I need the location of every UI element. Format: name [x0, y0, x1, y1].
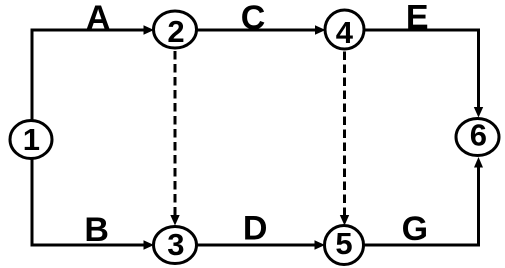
svg-text:2: 2 [167, 14, 184, 49]
arrowhead into node 5 [315, 240, 326, 249]
wire 1 to bottom-left corner then right toward node 3 (activity B) [32, 158, 145, 245]
arrowhead into node 6 bottom [474, 157, 483, 168]
svg-text:6: 6 [470, 118, 487, 153]
svg-text:4: 4 [336, 15, 354, 50]
svg-text:B: B [84, 211, 109, 249]
arrowhead into node 5 top (dashed dummy) [340, 215, 349, 226]
dashed dummy wire node 2 to node 3 [174, 51, 177, 217]
arrowhead into node 2 [144, 25, 155, 34]
wire node 3 to node 5 (activity D) [197, 244, 317, 247]
node 6 [456, 119, 499, 156]
node 2 [154, 11, 197, 48]
wire 1 to top-left corner then right toward node 2 (activity A) [32, 30, 145, 120]
svg-text:3: 3 [167, 227, 184, 262]
dashed dummy wire node 4 to node 5 [343, 52, 346, 217]
wire node 4 to top-right corner then down toward node 6 (activity E) [364, 30, 479, 109]
svg-text:G: G [402, 210, 428, 248]
svg-text:5: 5 [335, 226, 352, 261]
wire node 2 to node 4 (activity C) [197, 29, 317, 32]
arrowhead into node 4 [315, 25, 326, 34]
wire node 5 to bottom-right corner then up toward node 6 (activity G) [364, 166, 479, 245]
arrowhead into node 6 top [474, 107, 483, 118]
svg-text:1: 1 [23, 122, 40, 157]
svg-text:A: A [86, 0, 111, 37]
node 5 [325, 226, 364, 265]
node 4 [325, 10, 364, 49]
arrowhead into node 3 [144, 240, 155, 249]
node 1 [10, 121, 52, 159]
svg-text:E: E [406, 0, 429, 37]
node 3 [154, 227, 197, 264]
svg-text:C: C [241, 0, 266, 37]
svg-text:D: D [243, 210, 268, 248]
arrowhead into node 3 top (dashed dummy) [170, 215, 179, 226]
